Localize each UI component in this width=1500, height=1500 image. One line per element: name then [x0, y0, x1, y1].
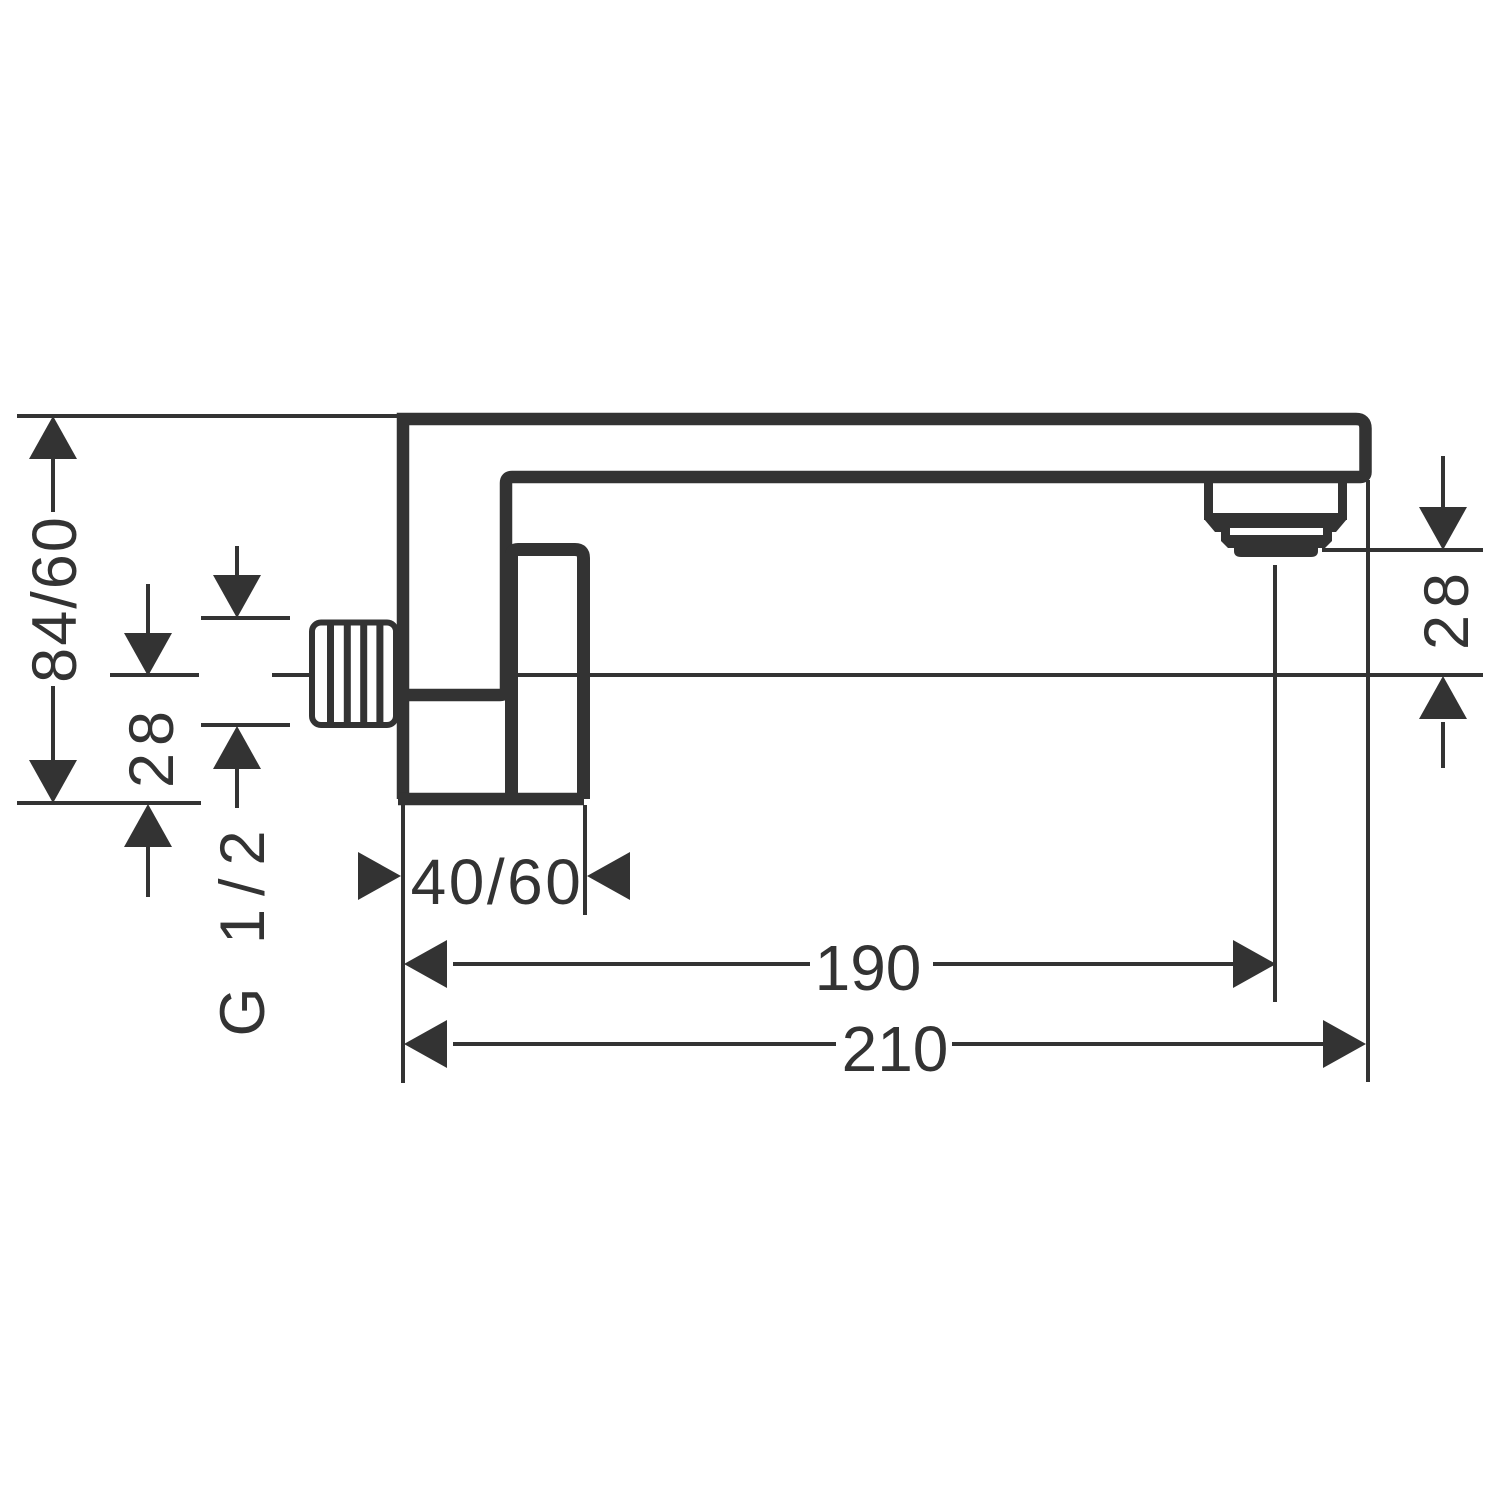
svg-text:84/60: 84/60	[20, 515, 90, 683]
wire: 40/60 left extension line	[401, 805, 405, 1083]
aerator lower band	[1221, 527, 1332, 548]
wire: inner rectangle body	[512, 550, 584, 800]
arrow: 84/60 bottom (down)	[29, 760, 77, 803]
knurl stripe 2	[344, 624, 351, 724]
wire: 190 dimension line left	[453, 962, 810, 966]
wire: 190 right extension line	[1273, 565, 1277, 1002]
arrow: 28-right bottom (up)	[1419, 676, 1467, 719]
arrow: 40/60 right (left-pointing)	[587, 852, 630, 900]
svg-text:28: 28	[117, 704, 187, 788]
aerator slot highlight	[1230, 528, 1323, 535]
wire: centerline segment B	[272, 673, 309, 677]
arrow: 28-right top (down)	[1419, 507, 1467, 550]
wire: escutcheon block bottom edge	[398, 793, 584, 806]
arrowheads	[29, 416, 1467, 1068]
wire: 210 right extension line	[1366, 480, 1370, 1082]
wire: 28-left arrow tails	[146, 584, 150, 636]
arrow: 210 right (right-pointing)	[1323, 1020, 1366, 1068]
aerator cap	[1234, 548, 1318, 557]
knurl stripe 1	[327, 624, 334, 724]
svg-text:40/60: 40/60	[411, 846, 584, 918]
arrow: 28-left bottom (up)	[124, 804, 172, 847]
wire: knob dim arrow tails	[235, 546, 239, 578]
wire: top extension line	[17, 414, 397, 418]
svg-text:190: 190	[815, 932, 922, 1004]
arrow: 84/60 top (up)	[29, 416, 77, 459]
arrow: 28-left top (down)	[124, 633, 172, 676]
wire: 190 dimension line right	[933, 962, 1233, 966]
wire: centerline segment A	[110, 673, 199, 677]
wire: 84/60 dimension line lower	[51, 686, 55, 761]
arrow: 190 left (left-pointing)	[404, 940, 447, 988]
wire: bottom-left extension line	[17, 801, 201, 805]
svg-text:28: 28	[1412, 566, 1482, 650]
knurled knob outline	[312, 623, 396, 726]
arrow: knob dim top (down)	[213, 575, 261, 618]
wire: 210 dimension line left	[453, 1042, 836, 1046]
wire: knob dim tick bottom	[201, 723, 290, 727]
wire: 28-right tick top	[1322, 548, 1483, 552]
arrow: 210 left (left-pointing)	[404, 1020, 447, 1068]
svg-text:G 1/2: G 1/2	[208, 817, 278, 1036]
dimension thin lines	[17, 416, 1483, 1083]
wire: 28-right arrow tails	[1441, 456, 1445, 508]
knurl stripe 4	[376, 624, 383, 724]
arrow: 40/60 left (right-pointing)	[358, 852, 401, 900]
arrow: knob dim bottom (up)	[213, 726, 261, 769]
aerator step 1	[1204, 483, 1347, 520]
wire: knob dim tick top	[201, 616, 290, 620]
arrow: 190 right (right-pointing)	[1233, 940, 1276, 988]
wire: spout main outline	[403, 419, 1366, 799]
svg-text:210: 210	[842, 1013, 949, 1085]
wire: 84/60 dimension line upper	[51, 458, 55, 512]
wire: centerline segment D	[589, 673, 1483, 677]
aerator chamfer band	[1204, 519, 1347, 532]
wire: 210 dimension line right	[952, 1042, 1324, 1046]
wire: 40/60 right extension line	[583, 805, 587, 915]
knurl stripe 3	[360, 624, 367, 724]
wire: centerline segment C	[512, 673, 578, 677]
